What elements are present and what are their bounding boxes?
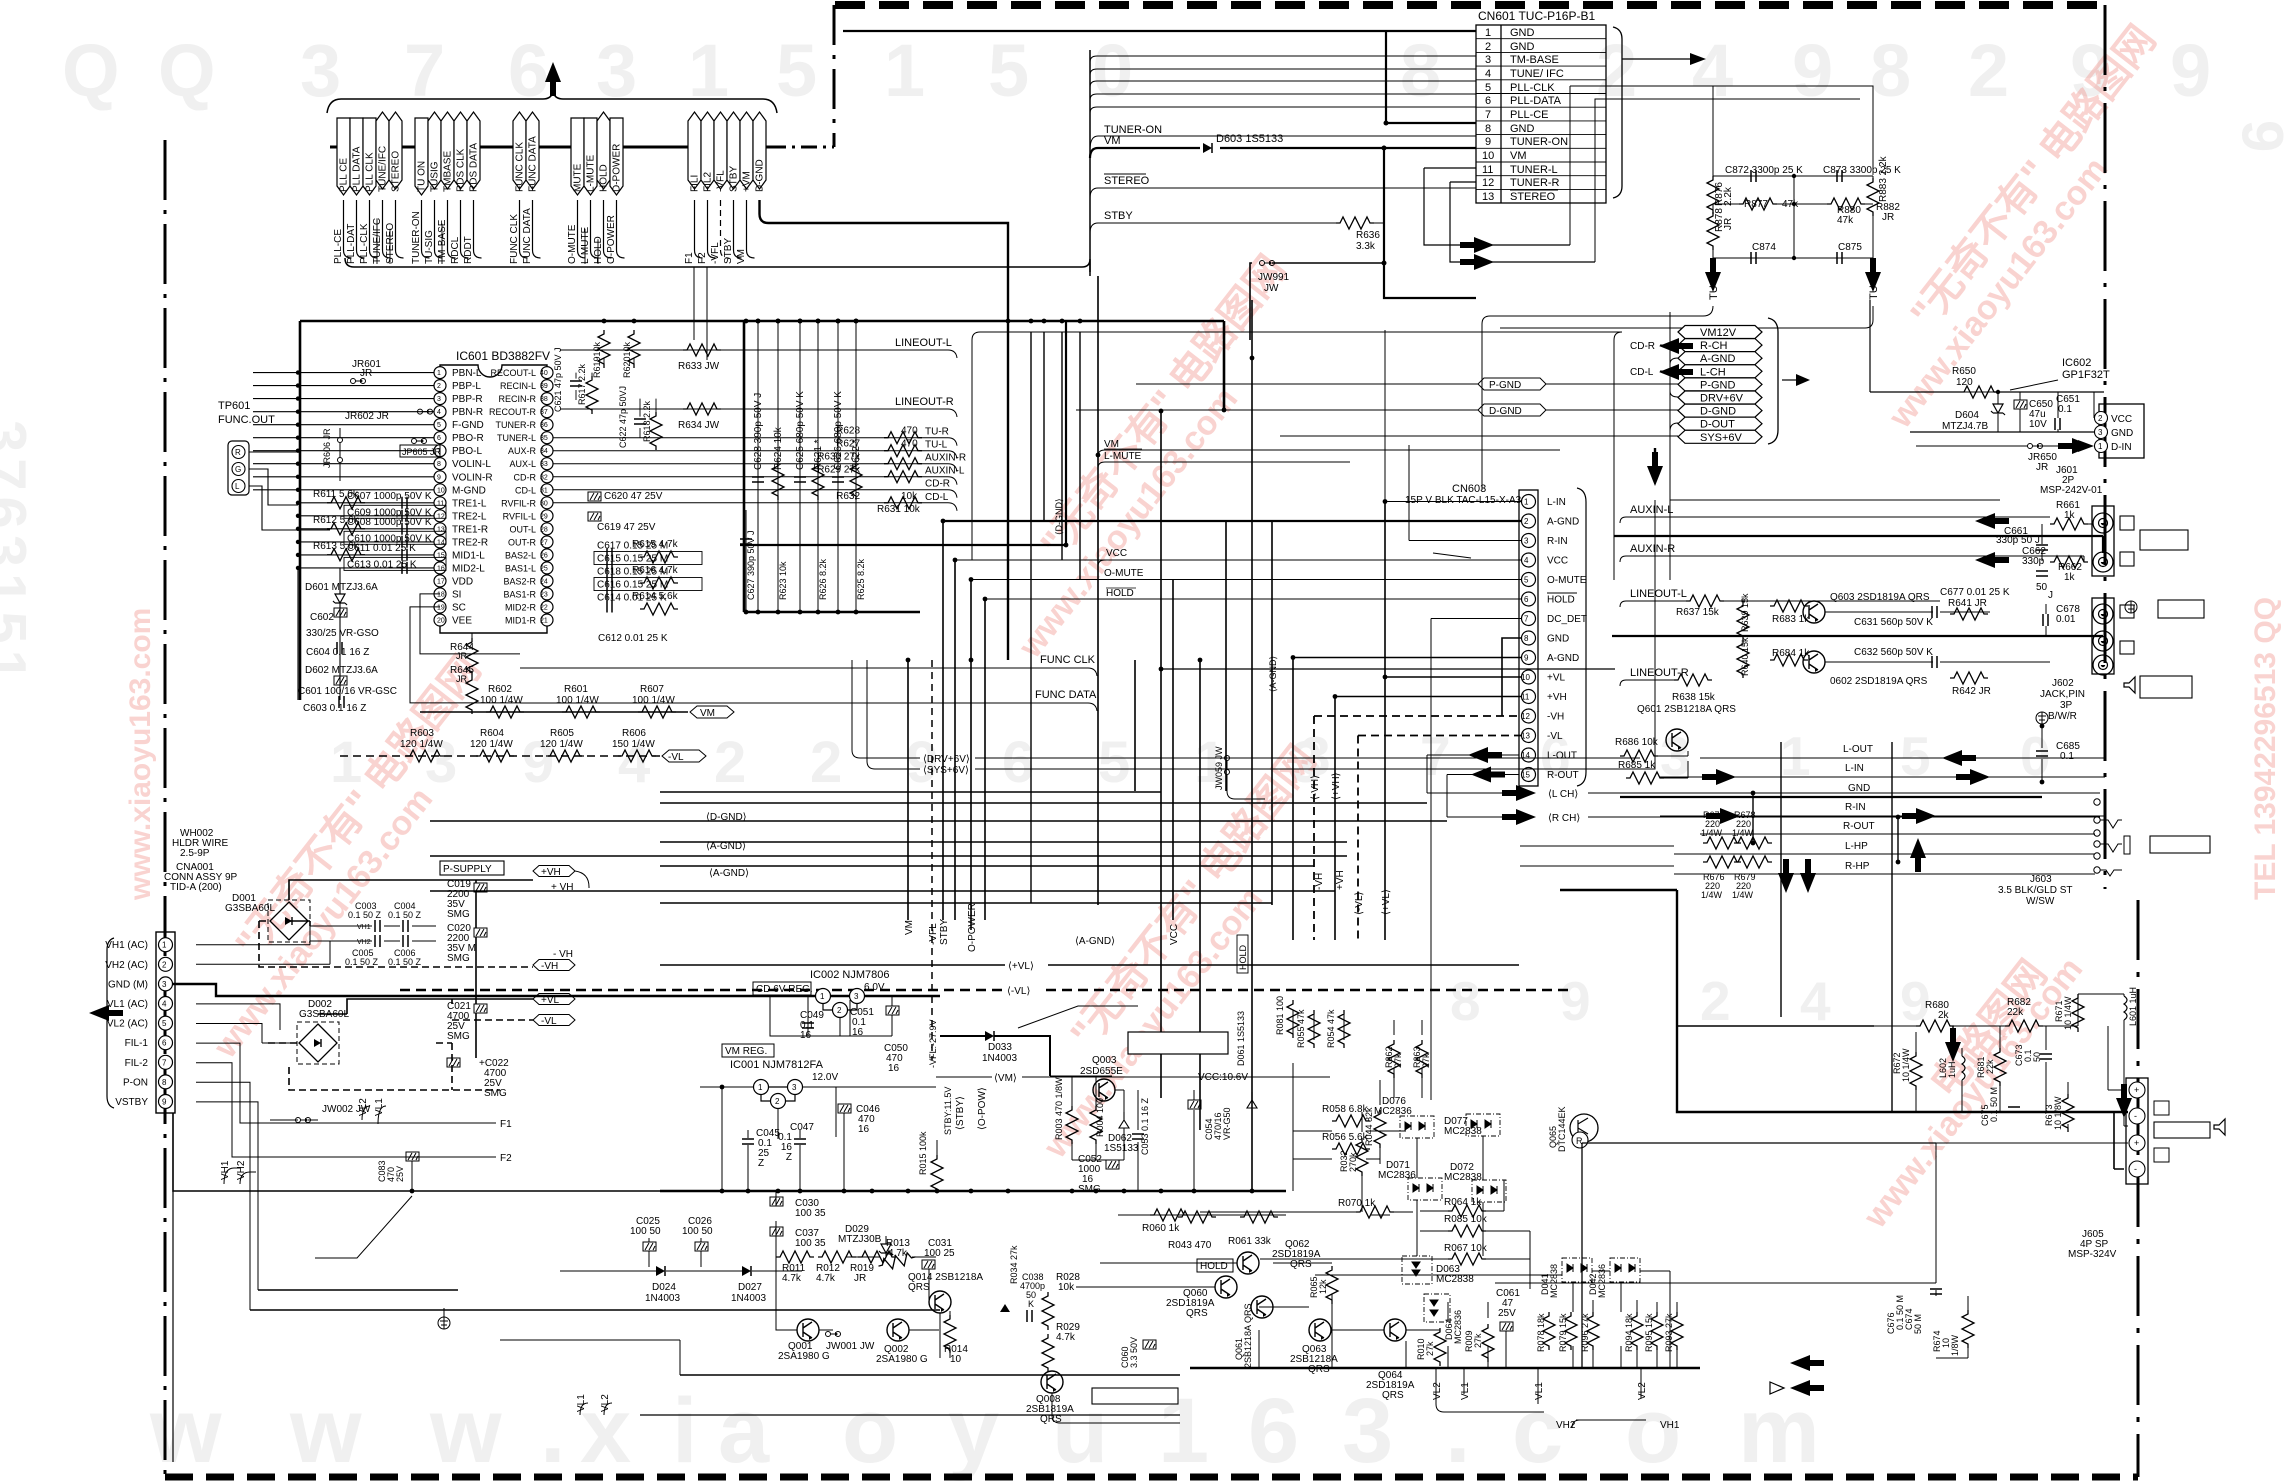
- wire CD-L row: [553, 503, 957, 511]
- wire thick bottom-left: [173, 1113, 940, 1310]
- resistor column 818: [812, 462, 824, 500]
- node label -VFL: [714, 112, 727, 189]
- svg-text:13: 13: [1482, 191, 1494, 203]
- svg-text:JW991: JW991: [1258, 272, 1290, 283]
- node label TU ON: [415, 118, 428, 195]
- wire arrow out: [1782, 379, 1796, 381]
- node label HOLD: [597, 112, 610, 189]
- diode D033: [985, 1031, 994, 1041]
- node IC601 pin 38 RECIN-R: [541, 393, 553, 405]
- node label P-GND: [1678, 378, 1762, 391]
- svg-text:13: 13: [1521, 732, 1530, 741]
- resistor column 856: [850, 462, 862, 500]
- svg-text:1/8W: 1/8W: [1950, 1334, 1960, 1356]
- svg-text:BAS1-R: BAS1-R: [503, 589, 536, 599]
- svg-text:2: 2: [714, 730, 746, 795]
- op-amp IC602 body: [2099, 404, 2144, 458]
- svg-text:3763151: 3763151: [0, 420, 38, 688]
- svg-text:⟨O-POW⟩: ⟨O-POW⟩: [977, 1087, 988, 1130]
- svg-text:4.7k: 4.7k: [816, 1273, 836, 1284]
- node CNA001 pin 9 VSTBY: [159, 1095, 173, 1109]
- resistor R627: [884, 445, 922, 457]
- svg-text:Q: Q: [62, 29, 120, 112]
- op-amp IC001 NJM7812FA: [722, 1044, 774, 1057]
- capacitor C050: [886, 1006, 899, 1015]
- node label TUSIG: [428, 112, 441, 189]
- svg-text:3: 3: [854, 992, 859, 1001]
- connector CNA001 body: [156, 932, 175, 1113]
- svg-text:TUNE/IFC: TUNE/IFC: [378, 146, 389, 192]
- ground main: [438, 1317, 450, 1329]
- svg-text:VSTBY: VSTBY: [115, 1097, 148, 1108]
- svg-text:⟨SYS+6V⟩: ⟨SYS+6V⟩: [923, 765, 969, 776]
- svg-text:3.5 BLK/GLD ST: 3.5 BLK/GLD ST: [1998, 885, 2072, 896]
- svg-text:-VFL: -VFL: [710, 242, 721, 264]
- wire q cluster: [776, 1191, 950, 1358]
- svg-text:STEREO: STEREO: [1104, 175, 1150, 187]
- svg-text:0602 2SD1819A QRS: 0602 2SD1819A QRS: [1830, 676, 1928, 687]
- svg-text:SI: SI: [452, 589, 461, 600]
- resistor R637: [1686, 595, 1724, 607]
- arrow TU-L down: [1705, 258, 1721, 292]
- svg-text:26: 26: [540, 552, 548, 559]
- resistor column 778: [772, 462, 784, 500]
- svg-text:25V: 25V: [1498, 1308, 1516, 1319]
- resistor R642: [1950, 672, 1988, 684]
- node -VH label: [533, 960, 575, 971]
- svg-text:PLL-CLK: PLL-CLK: [359, 223, 370, 264]
- svg-text:F2: F2: [697, 252, 708, 264]
- svg-text:8: 8: [1524, 634, 1529, 643]
- svg-text:R636: R636: [1356, 230, 1380, 241]
- node label L-CH: [1678, 365, 1762, 378]
- svg-text:G: G: [235, 465, 241, 474]
- wire LINEOUT-L row: [560, 350, 957, 358]
- svg-text:JR: JR: [2036, 462, 2048, 473]
- node IC601 pin 22 MID2-R: [541, 601, 553, 613]
- resistor R630: [884, 458, 922, 470]
- svg-text:39: 39: [540, 383, 548, 390]
- svg-text:0.1: 0.1: [2058, 404, 2072, 415]
- svg-text:100 50: 100 50: [630, 1226, 661, 1237]
- svg-text:R615 4 7k: R615 4 7k: [632, 539, 679, 550]
- svg-text:-VH: -VH: [1547, 712, 1564, 723]
- svg-text:R003 470 1/8W: R003 470 1/8W: [1054, 1077, 1064, 1140]
- svg-text:TU-L: TU-L: [925, 440, 948, 451]
- svg-text:JR606 JR: JR606 JR: [322, 428, 332, 468]
- node IC601 pin 19 SC: [434, 601, 446, 613]
- svg-text:VL2: VL2: [1432, 1382, 1443, 1400]
- capacitor column 800: [794, 477, 806, 482]
- svg-text:Z: Z: [758, 1158, 764, 1169]
- node IC601 pin 31 CD-L: [541, 484, 553, 496]
- node CNA001 pin 3 GND (M): [159, 977, 173, 991]
- svg-text:27k: 27k: [1425, 1341, 1435, 1356]
- svg-text:4.7k: 4.7k: [782, 1273, 802, 1284]
- svg-text:+VH: +VH: [1547, 692, 1567, 703]
- svg-text:R637 15k: R637 15k: [1676, 607, 1720, 618]
- resistor R060: [1118, 1214, 1390, 1216]
- wire -VL row: [340, 755, 660, 757]
- svg-text:TUNE/ IFC: TUNE/ IFC: [1510, 68, 1564, 80]
- svg-text:VM: VM: [1104, 135, 1121, 147]
- svg-text:VCC: VCC: [1106, 548, 1127, 559]
- svg-text:R633 JW: R633 JW: [678, 361, 720, 372]
- svg-text:R044 82k: R044 82k: [1364, 1107, 1374, 1146]
- capacitor C619: [588, 512, 601, 521]
- svg-text:C612 0.01 25 K: C612 0.01 25 K: [598, 633, 668, 644]
- svg-text:C602: C602: [310, 612, 334, 623]
- svg-text:VEE: VEE: [452, 616, 472, 627]
- svg-text:GND: GND: [1510, 41, 1535, 53]
- svg-text:JW059 JW: JW059 JW: [1214, 746, 1224, 790]
- svg-text:w: w: [429, 1380, 502, 1482]
- svg-text:2: 2: [437, 383, 441, 390]
- wire C628 column rail: [744, 321, 920, 612]
- wire pin15 R-OUT: [1447, 775, 1519, 818]
- capacitor C874: [1751, 252, 1756, 264]
- svg-text:VL1: VL1: [1460, 1382, 1471, 1400]
- svg-text:5: 5: [988, 29, 1029, 112]
- node HOLD rot label: [1237, 935, 1248, 973]
- svg-text:B/W/R: B/W/R: [2048, 711, 2077, 722]
- svg-text:27k: 27k: [1473, 1333, 1483, 1348]
- svg-text:0.1 50 M: 0.1 50 M: [1895, 1295, 1905, 1330]
- svg-text:CD-R: CD-R: [925, 479, 950, 490]
- svg-text:22k: 22k: [2007, 1007, 2024, 1018]
- svg-text:1: 1: [1780, 725, 1811, 787]
- node IC601 pin 29 RVFIL-L: [541, 510, 553, 522]
- svg-text:SMG: SMG: [447, 953, 470, 964]
- svg-text:C601 100/16 VR-GSC: C601 100/16 VR-GSC: [298, 686, 397, 697]
- resistor R632: [884, 497, 922, 509]
- svg-text:5: 5: [162, 1019, 167, 1028]
- svg-text:CD-R: CD-R: [1630, 341, 1655, 352]
- svg-text:5: 5: [776, 29, 817, 112]
- svg-text:L-HP: L-HP: [1845, 841, 1868, 852]
- svg-text:R605: R605: [550, 728, 574, 739]
- svg-text:C621 47p 50V J: C621 47p 50V J: [553, 347, 563, 412]
- wire label bus vertical: [1089, 50, 1091, 272]
- speaker plug: [2154, 1122, 2210, 1138]
- svg-text:TP601: TP601: [218, 400, 250, 412]
- svg-text:IC602: IC602: [2062, 357, 2091, 369]
- svg-text:MID2-R: MID2-R: [505, 603, 536, 613]
- svg-text:TID-A (200): TID-A (200): [170, 882, 222, 893]
- wire bottom rails extra: [500, 1340, 680, 1375]
- svg-text:31: 31: [540, 487, 548, 494]
- svg-text:R-IN: R-IN: [1547, 536, 1568, 547]
- svg-text:VL1: VL1: [1534, 1382, 1545, 1400]
- svg-text:PBO-L: PBO-L: [452, 446, 482, 457]
- svg-text:JR: JR: [360, 368, 372, 379]
- wire +VH run: [476, 876, 575, 880]
- wire stem +VM: [747, 200, 755, 258]
- svg-text:6: 6: [437, 435, 441, 442]
- capacitor C610: [344, 531, 446, 544]
- svg-text:1: 1: [884, 29, 925, 112]
- node IC601 pin 34 AUX-R: [541, 445, 553, 457]
- svg-text:TUNER-L: TUNER-L: [497, 433, 536, 443]
- node CNA001 pin 2 VH2 (AC): [159, 957, 173, 971]
- node CNA001 pin 1 VH1 (AC): [159, 938, 173, 952]
- svg-text:⟨R CH⟩: ⟨R CH⟩: [1548, 813, 1580, 824]
- wire TP601 to bus: [249, 452, 330, 530]
- wire lower: [1582, 1143, 1936, 1368]
- svg-text:CN603: CN603: [1452, 483, 1486, 495]
- svg-text:120 1/4W: 120 1/4W: [540, 739, 583, 750]
- svg-text:D027: D027: [738, 1282, 762, 1293]
- svg-text:C611 0.01 25 K: C611 0.01 25 K: [347, 543, 416, 554]
- svg-text:FIL-2: FIL-2: [125, 1058, 149, 1069]
- svg-text:MID1-R: MID1-R: [505, 616, 536, 626]
- wire right border: [2104, 5, 2107, 889]
- svg-text:R623 10k: R623 10k: [778, 561, 788, 600]
- capacitor C049: [802, 1023, 814, 1028]
- svg-text:MC2838: MC2838: [1444, 1172, 1482, 1183]
- svg-text:100 50: 100 50: [682, 1226, 713, 1237]
- svg-text:47k: 47k: [1837, 215, 1854, 226]
- wire stem TMBASE: [448, 200, 456, 258]
- svg-text:100 1/4W: 100 1/4W: [632, 695, 675, 706]
- svg-text:RECIN-R: RECIN-R: [499, 394, 537, 404]
- svg-text:36: 36: [540, 422, 548, 429]
- svg-text:3: 3: [2098, 428, 2103, 437]
- svg-text:D024: D024: [652, 1282, 676, 1293]
- wire TU-L row: [553, 451, 957, 459]
- wire column: [777, 321, 779, 612]
- svg-text:L-IN: L-IN: [1845, 763, 1864, 774]
- svg-text:LINEOUT-L: LINEOUT-L: [895, 337, 952, 349]
- wire VL feeds: [196, 1004, 297, 1043]
- svg-text:TUSIG: TUSIG: [430, 161, 441, 192]
- wire left bus vertical thick: [299, 321, 302, 700]
- wire GND row: [1910, 431, 2094, 433]
- svg-text:AUXIN-L: AUXIN-L: [1630, 504, 1673, 516]
- svg-text:K: K: [1028, 1299, 1034, 1309]
- svg-text:JACK,PIN: JACK,PIN: [2040, 689, 2085, 700]
- node label FIL2: [701, 112, 714, 189]
- wire mid thick: [1614, 536, 2103, 553]
- svg-text:VH1: VH1: [220, 1160, 231, 1180]
- svg-text:FUNC DATA: FUNC DATA: [522, 208, 533, 264]
- svg-text:34: 34: [540, 448, 548, 455]
- svg-text:VH1: VH1: [1660, 1420, 1680, 1431]
- svg-text:40: 40: [540, 370, 548, 377]
- wire stem L-MUTE: [591, 200, 599, 258]
- svg-text:VCC: VCC: [1547, 556, 1568, 567]
- svg-text:PBP-R: PBP-R: [452, 394, 483, 405]
- wire TU loop bottom: [1482, 306, 1713, 490]
- wire column: [757, 321, 759, 612]
- svg-text:L-MUTE: L-MUTE: [586, 154, 597, 192]
- capacitor C620: [588, 492, 601, 501]
- svg-text:VH2 (AC): VH2 (AC): [105, 960, 148, 971]
- node L CH: [1427, 792, 1512, 794]
- svg-text:VDD: VDD: [452, 576, 473, 587]
- svg-text:D-IN: D-IN: [2111, 442, 2132, 453]
- svg-text:a: a: [718, 1380, 770, 1482]
- wire network top: [1713, 170, 1873, 212]
- svg-text:3: 3: [1485, 54, 1491, 66]
- svg-text:FUNC CLK: FUNC CLK: [515, 142, 526, 192]
- wire D-OUT to IC602: [1670, 500, 2000, 508]
- jumper JP605: [400, 445, 440, 457]
- capacitor C046: [838, 1104, 851, 1113]
- resistor R019: [858, 1251, 896, 1263]
- svg-text:C874: C874: [1752, 242, 1776, 253]
- svg-text:R632: R632: [836, 491, 860, 502]
- svg-text:IC601 BD3882FV: IC601 BD3882FV: [456, 349, 550, 363]
- wire VM thick: [1090, 148, 1476, 158]
- svg-text:HOLD: HOLD: [599, 164, 610, 192]
- node IC601 pin 4 PBN-R: [434, 406, 446, 418]
- node CN603 pin 15 R-OUT: [1522, 768, 1536, 782]
- svg-text:-VH: -VH: [541, 961, 558, 972]
- svg-text:STBY: STBY: [1104, 210, 1133, 222]
- svg-text:GND: GND: [1547, 634, 1569, 645]
- svg-text:m: m: [1738, 1380, 1820, 1482]
- svg-text:1S5133: 1S5133: [1104, 1143, 1139, 1154]
- node +VL label: [533, 994, 575, 1005]
- svg-text:18: 18: [437, 591, 445, 598]
- red watermarks: [124, 18, 2282, 1236]
- wire -VH dashed: [259, 921, 533, 1043]
- svg-text:0.1 50 Z: 0.1 50 Z: [388, 957, 422, 967]
- node brace over fan: [327, 92, 777, 113]
- svg-text:RECIN-L: RECIN-L: [500, 381, 536, 391]
- node CNA001 brace: [107, 938, 114, 1108]
- svg-text:R015 100k: R015 100k: [918, 1131, 928, 1175]
- svg-text:0.1 50 M: 0.1 50 M: [1989, 1087, 1999, 1122]
- svg-text:6: 6: [1485, 95, 1491, 107]
- node IC601 pin 25 BAS1-L: [541, 562, 553, 574]
- svg-text:R631 10k: R631 10k: [877, 504, 921, 515]
- svg-text:D-GND: D-GND: [1700, 406, 1736, 418]
- svg-text:PBN-R: PBN-R: [452, 407, 483, 418]
- svg-text:5: 5: [1485, 82, 1491, 94]
- arrow TU-R down: [1865, 258, 1881, 292]
- svg-text:R629 27k: R629 27k: [817, 465, 861, 476]
- svg-text:VR-G50: VR-G50: [1222, 1107, 1232, 1140]
- svg-text:L601 1uH: L601 1uH: [2128, 987, 2138, 1026]
- svg-text:C632 560p 50V K: C632 560p 50V K: [1854, 647, 1933, 658]
- svg-text:3.3 50V: 3.3 50V: [1129, 1337, 1139, 1368]
- wire cap rows: [310, 926, 436, 941]
- wire left column verticals: [298, 568, 340, 700]
- svg-text:1/4W: 1/4W: [1701, 890, 1723, 900]
- svg-text:i: i: [672, 1380, 698, 1482]
- node label PLL DATA: [350, 118, 363, 195]
- svg-text:9: 9: [1792, 29, 1833, 112]
- wire thick elbow: [740, 321, 1066, 545]
- svg-text:4: 4: [162, 1000, 167, 1009]
- svg-text:10 1/4W: 10 1/4W: [1901, 1048, 1911, 1082]
- arrow TU-R feed: [1460, 254, 1494, 270]
- svg-text:HOLD: HOLD: [1238, 944, 1248, 970]
- svg-text:AUXIN-R: AUXIN-R: [925, 453, 966, 464]
- arrow down filter: [1945, 1028, 1961, 1062]
- svg-text:SMG: SMG: [447, 909, 470, 920]
- svg-text:VOLIN-L: VOLIN-L: [452, 459, 491, 470]
- node IC601 pin 5 F-GND: [434, 419, 446, 431]
- wire P-ON VSTBY: [196, 1082, 258, 1310]
- svg-text:R616 4.7k: R616 4.7k: [632, 565, 679, 576]
- wire Q008 link: [1052, 1393, 1180, 1423]
- svg-text:22: 22: [540, 605, 548, 612]
- svg-text:100 1/4W: 100 1/4W: [556, 695, 599, 706]
- node CN603 pin 14 L-OUT: [1522, 748, 1536, 762]
- svg-text:+ VH: + VH: [551, 882, 574, 893]
- svg-text:12.0V: 12.0V: [812, 1072, 838, 1083]
- svg-text:14: 14: [1521, 751, 1530, 760]
- svg-text:F1: F1: [684, 252, 695, 264]
- svg-text:22k: 22k: [1985, 1059, 1995, 1074]
- connector J601 jacks: [2092, 506, 2114, 576]
- svg-text:O-POWER: O-POWER: [606, 215, 617, 264]
- svg-text:D033: D033: [988, 1042, 1012, 1053]
- svg-text:25: 25: [540, 565, 548, 572]
- svg-text:J602: J602: [2052, 678, 2074, 689]
- resistor R877: [1739, 198, 1777, 210]
- node IC601 pin 21 MID1-R: [541, 614, 553, 626]
- svg-text:HOLD: HOLD: [1547, 595, 1575, 606]
- svg-text:32: 32: [540, 474, 548, 481]
- svg-text:C627 390p 50V J: C627 390p 50V J: [746, 530, 756, 600]
- svg-text:⟨-VH⟩: ⟨-VH⟩: [1310, 775, 1321, 800]
- svg-text:5: 5: [437, 422, 441, 429]
- svg-text:Q003: Q003: [1092, 1055, 1117, 1066]
- svg-text:RDDT: RDDT: [463, 236, 474, 264]
- svg-text:C875: C875: [1838, 242, 1862, 253]
- svg-text:DRV+6V: DRV+6V: [1700, 393, 1744, 405]
- node -VL label: [662, 750, 706, 762]
- connector J605: [2126, 1078, 2148, 1184]
- node R CH: [1447, 816, 1512, 818]
- wire FUNC DATA: [520, 703, 1097, 711]
- connector CNA001 labels: [164, 828, 238, 893]
- wire TU-R row: [553, 438, 957, 446]
- svg-text:10k: 10k: [1058, 1282, 1075, 1293]
- svg-text:MC2836: MC2836: [1453, 1310, 1463, 1344]
- svg-text:QRS: QRS: [1290, 1259, 1312, 1270]
- capacitor C650: [2014, 400, 2027, 409]
- svg-text:C677 0.01 25 K: C677 0.01 25 K: [1940, 587, 2010, 598]
- svg-text:PBO-R: PBO-R: [452, 433, 484, 444]
- resistor R011: [776, 1251, 814, 1263]
- transistor Q603: [1803, 601, 1825, 623]
- svg-text:QRS: QRS: [908, 1282, 930, 1293]
- resistor R012: [818, 1251, 856, 1263]
- svg-text:R607: R607: [640, 684, 664, 695]
- svg-text:LINEOUT-L: LINEOUT-L: [1630, 588, 1687, 600]
- capacitor C627: [740, 539, 752, 544]
- svg-text:GND: GND: [1510, 123, 1535, 135]
- wire pin10 +VL: [1385, 501, 1521, 940]
- wire pin3: [1409, 445, 1521, 541]
- svg-text:29: 29: [540, 513, 548, 520]
- wire mesh verticals: [908, 276, 1272, 1191]
- wire left column to bottom: [172, 1191, 174, 1462]
- node IC601 pin 24 BAS2-R: [541, 575, 553, 587]
- svg-text:⟨A-GND⟩: ⟨A-GND⟩: [709, 868, 749, 879]
- wire FIL feeds: [196, 1043, 496, 1157]
- svg-text:R686 10k: R686 10k: [1615, 737, 1659, 748]
- svg-text:VM: VM: [1510, 150, 1527, 162]
- svg-text:HOLD: HOLD: [1106, 588, 1134, 599]
- svg-text:2k: 2k: [1938, 1010, 1950, 1021]
- svg-text:R601: R601: [564, 684, 588, 695]
